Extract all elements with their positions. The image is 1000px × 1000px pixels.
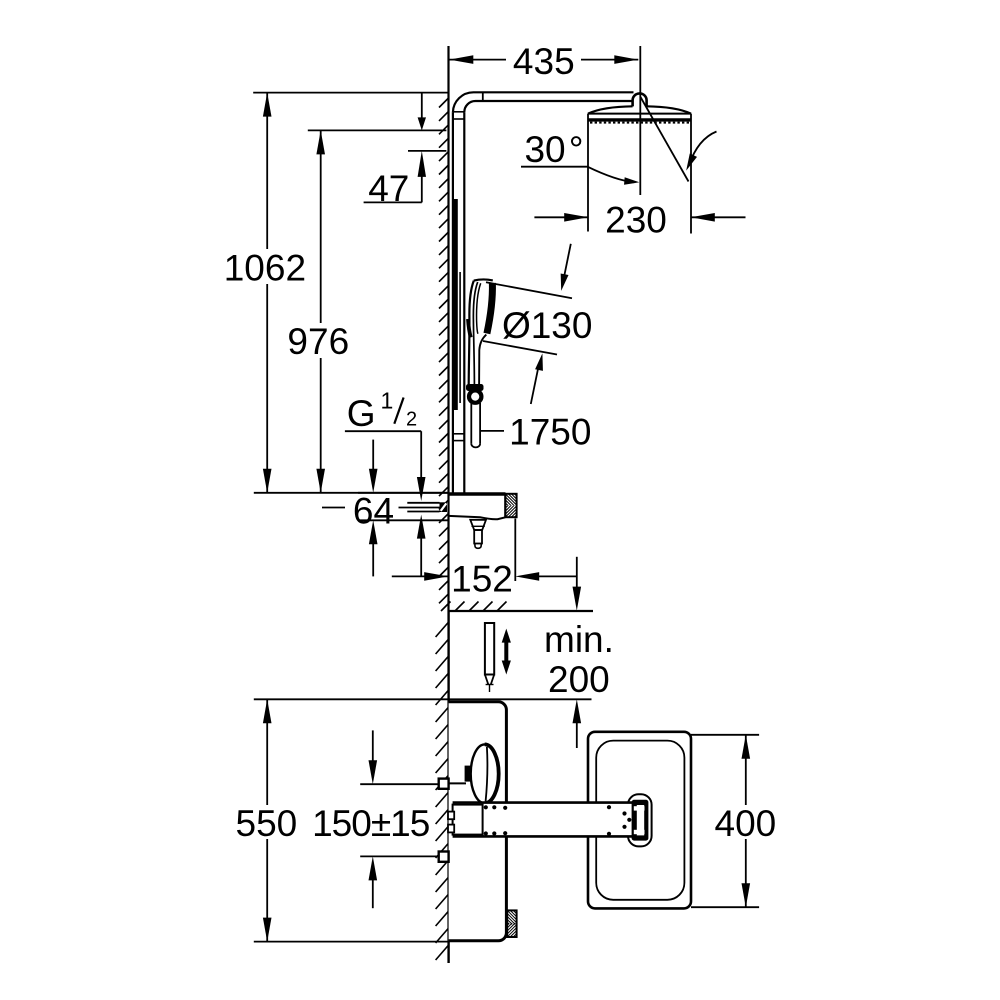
handle below ring [470,403,472,444]
shelf body side view [449,492,506,495]
dim 64 arrows left [372,440,374,470]
wall top section [447,46,449,611]
holder clamp band [466,384,484,391]
wall bottom section [447,611,449,963]
dim 64 extension lines [358,492,449,494]
bar [453,803,636,837]
bar mount block [453,805,483,835]
extension line bottom (1062/976) [254,492,449,494]
screw icon [485,623,494,675]
shower arm pipe inner [464,101,632,112]
extension line 47 bottom [408,150,446,152]
svg-text:1750: 1750 [509,412,591,453]
clamp ring [632,800,649,841]
knob bracket [449,782,466,784]
dim 152 [514,519,516,582]
hand shower face (thick arc) [487,283,493,334]
min200 bottom arrow [573,699,582,723]
floor/wall line of plan view [449,610,593,612]
dim 230 arrows [534,216,588,218]
dim 130 arrows [563,244,571,282]
svg-text:30 °: 30 ° [524,129,583,170]
hatched block plan [507,910,516,937]
min200 top arrow [576,557,578,598]
svg-text:Ø130: Ø130 [502,305,593,346]
slide rail (thick) [453,199,457,410]
svg-text:64: 64 [353,491,394,532]
mixer body plan view [449,702,507,941]
svg-text:150±15: 150±15 [312,803,430,844]
dim 47 [421,93,423,122]
30deg leader [521,166,588,168]
supply stub lines [407,502,439,504]
svg-text:1: 1 [381,388,394,414]
holder ring [469,390,481,402]
spray face thick [589,118,691,121]
dim 1062 [266,93,268,249]
dim 976 [320,130,322,323]
svg-text:435: 435 [513,41,575,82]
vertical pipe [452,112,454,492]
double arrow [502,629,511,643]
supply squares [439,779,449,789]
clamp outer [628,794,652,846]
shelf plan inner tray [596,741,684,900]
ext line 550 top / min200 bottom [254,698,592,700]
center line / 435 right extension [639,46,641,195]
G 1/2 slash [394,398,403,424]
hand shower top cap [474,279,493,280]
svg-text:230: 230 [605,199,667,240]
dim 435 [449,59,506,61]
svg-text:400: 400 [715,803,777,844]
dim 400 [691,734,759,736]
pipe joint ticks [453,111,464,113]
svg-text:152: 152 [451,559,513,600]
control block hatched [505,494,516,517]
svg-text:200: 200 [548,659,610,700]
nozzles [590,122,689,124]
arm joint tick [482,92,484,101]
head lid [588,106,691,113]
dim 230 extension lines [587,114,589,232]
svg-text:550: 550 [236,803,298,844]
hand shower outline [469,281,474,385]
dim 64 arrows right [420,537,422,576]
G 1/2 leader [345,430,421,432]
knob ellipse [471,744,499,803]
svg-text:2: 2 [406,409,417,431]
extension line top (1062) [253,92,448,94]
tilt curved arrow [689,132,717,166]
extension line 976/47 [308,129,447,131]
ext line 550 bottom [254,941,449,943]
hand shower neck right [479,335,486,385]
hose outlet funnel [470,520,486,530]
svg-text:min.: min. [544,619,614,660]
svg-text:G: G [347,393,376,434]
dim 550 [266,699,268,805]
supply connector square [440,502,448,512]
shelf plan outer [588,732,691,909]
svg-text:1062: 1062 [224,248,306,289]
1750 leader [480,430,504,432]
svg-text:47: 47 [368,168,409,209]
svg-text:976: 976 [287,321,349,362]
dim 150+-15 [360,783,439,785]
30 deg axis line [641,97,689,182]
shower arm pipe outer [453,92,634,112]
dim diameter 130 frame lines [486,282,572,298]
ball joint [633,93,647,106]
bar rivet dots [484,805,488,809]
wall notches [448,812,454,820]
hand shower grip dark edge [468,319,471,337]
